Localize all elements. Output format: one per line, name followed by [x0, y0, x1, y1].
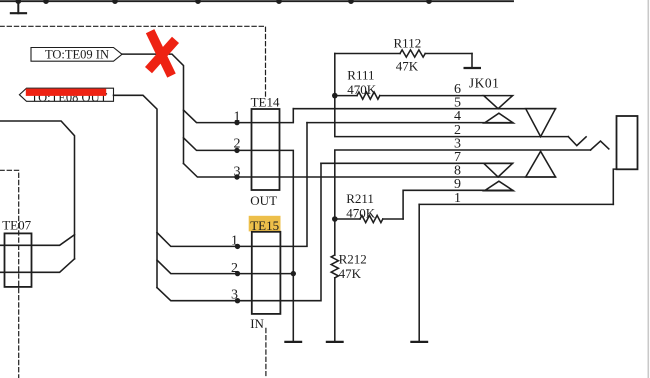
connector TE14: [250, 94, 280, 208]
connector TE07: [2, 217, 31, 287]
node junction R111/R112: [332, 93, 338, 99]
jack tip contact triangle lower: [526, 151, 556, 177]
svg-text:470K: 470K: [346, 205, 376, 220]
wire R211 up to JK row 9: [403, 190, 512, 219]
wire JK row 4: [307, 122, 513, 124]
wire JK row 3: [335, 150, 591, 219]
svg-text:R111: R111: [347, 68, 374, 83]
node TE15 pin1: [231, 233, 240, 249]
wire R112 left leg down to node: [334, 54, 336, 96]
wire branch TE07 pin2: [0, 259, 75, 273]
node TE14 pin1: [234, 110, 241, 126]
svg-text:R212: R212: [339, 252, 367, 267]
svg-text:TE15: TE15: [250, 218, 279, 233]
wire TE09 to TE14 vertical feed: [122, 54, 184, 163]
svg-text:3: 3: [234, 165, 241, 180]
node TE14 pin2: [234, 137, 241, 153]
red strikethrough annotation on TO:TE08 OUT: [26, 89, 106, 96]
resistor R212 47K vertical: [331, 219, 367, 342]
svg-text:R112: R112: [394, 35, 422, 50]
node TO:TE09 IN flag: [31, 48, 122, 62]
svg-text:R211: R211: [346, 191, 374, 206]
svg-text:1: 1: [454, 191, 461, 206]
wire dashed sheet boundary below TE15: [265, 328, 267, 375]
node TO:TE08 OUT flag: [19, 88, 113, 104]
wire JK row 1: [419, 203, 613, 205]
red X annotation over TE09 wire: [149, 31, 176, 75]
node TE14 pin3: [234, 165, 241, 180]
wire dashed sheet boundary top: [0, 26, 266, 96]
svg-text:TO:TE09 IN: TO:TE09 IN: [45, 48, 109, 62]
wire row 1 to ground: [418, 204, 420, 342]
svg-text:47K: 47K: [339, 266, 362, 281]
svg-text:TE14: TE14: [251, 94, 280, 109]
svg-text:4: 4: [454, 109, 461, 124]
ground R212: [327, 341, 343, 343]
wire JK row 5: [293, 108, 555, 110]
resistor R111 470K on JK row 6: [335, 68, 484, 100]
node junction TE15 pin2: [291, 271, 296, 276]
resistor R211 470K: [335, 191, 403, 222]
jack contact bowtie rows 6-5-4: [484, 96, 514, 123]
svg-text:470K: 470K: [347, 82, 377, 97]
svg-text:47K: 47K: [396, 58, 419, 73]
wire top power rail: [0, 0, 513, 2]
wire node to JK row 2: [335, 96, 569, 137]
ground R112: [465, 67, 480, 69]
wire TE15 pin2 to ground: [292, 274, 294, 342]
wire branch to TE14 pin2: [184, 138, 294, 274]
wire branch TE07 pin1: [0, 235, 75, 246]
wire R112 to ground: [471, 54, 473, 69]
ground TE15 pin2: [285, 341, 301, 343]
svg-text:3: 3: [231, 288, 238, 303]
svg-text:2: 2: [231, 261, 238, 276]
ground row 1: [411, 341, 427, 343]
page edge border right: [647, 0, 649, 378]
svg-text:2: 2: [234, 137, 241, 152]
ground top-left: [11, 1, 26, 13]
wire branch to TE14 pin1: [184, 109, 294, 123]
jack contact bowtie rows 7-8-9: [484, 163, 514, 190]
svg-text:TE07: TE07: [2, 217, 31, 232]
node junction dots on top rail: [15, 0, 431, 4]
wire branch to TE15 pin2: [157, 260, 293, 274]
svg-text:1: 1: [234, 110, 241, 125]
jack switch contact row 3: [591, 141, 609, 150]
wire branch to TE15 pin3: [157, 163, 321, 300]
connector TE15 highlighted: [249, 216, 281, 331]
wire JK row 7: [321, 162, 513, 164]
wire TE08 to TE15 vertical feed: [114, 95, 158, 287]
wire branch to TE15 pin1: [157, 123, 307, 247]
wire branch to TE14 pin3 / JK row 8: [184, 164, 556, 178]
svg-text:IN: IN: [250, 316, 264, 331]
jack switch contact row 2: [568, 137, 586, 146]
jack plug body JK01: [613, 116, 637, 204]
svg-text:9: 9: [454, 177, 461, 192]
jack tip contact triangle upper: [526, 109, 556, 137]
svg-text:OUT: OUT: [250, 193, 277, 208]
node TE15 pin3: [231, 288, 240, 304]
svg-text:1: 1: [231, 233, 238, 248]
wire dashed sheet boundary left: [0, 170, 19, 378]
wire left loop to TE07: [0, 121, 75, 259]
node TE15 pin2: [231, 261, 240, 276]
resistor R112 47K: [335, 35, 472, 73]
node junction R211/R212: [332, 216, 338, 222]
svg-text:JK01: JK01: [469, 75, 500, 90]
